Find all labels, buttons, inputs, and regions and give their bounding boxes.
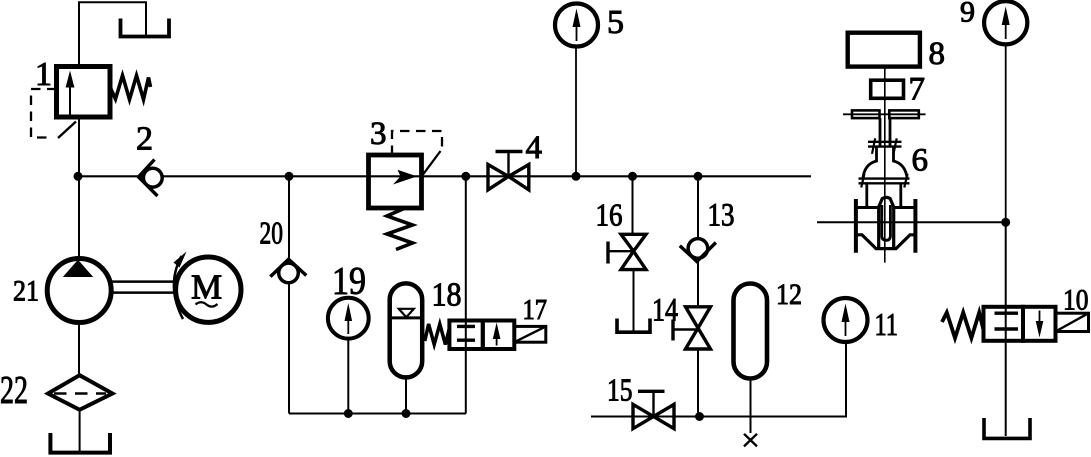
- pump 21: [47, 259, 111, 323]
- svg-text:12: 12: [776, 278, 802, 311]
- svg-text:6: 6: [912, 143, 929, 179]
- gauge 11: [845, 342, 847, 417]
- svg-text:M: M: [191, 268, 222, 307]
- wire to check 13: [697, 176, 699, 240]
- svg-text:7: 7: [909, 72, 926, 108]
- svg-text:4: 4: [526, 130, 543, 166]
- tank T21 (suction): [50, 433, 110, 453]
- pipe flanges: [854, 199, 858, 253]
- wire valve1 top to tank: [79, 2, 146, 66]
- svg-text:11: 11: [875, 306, 899, 342]
- stem: [879, 118, 882, 147]
- shutoff valve 15: [633, 404, 654, 428]
- check valve 2: [143, 168, 162, 187]
- wire check13 to valve 14: [697, 260, 699, 307]
- wire bottom-left manifold: [289, 413, 466, 415]
- spring of valve 3: [387, 209, 413, 250]
- svg-text:18: 18: [432, 277, 462, 314]
- node G (main/valve16): [628, 172, 637, 181]
- svg-text:21: 21: [13, 275, 39, 308]
- svg-text:13: 13: [708, 198, 735, 234]
- neck sides: [865, 183, 868, 207]
- tank T1 (relief outlet): [121, 19, 170, 37]
- gate valve 6 assembly: [843, 33, 945, 263]
- wire gauge 9 down: [1005, 44, 1007, 222]
- tank T16: [617, 319, 650, 333]
- svg-text:15: 15: [607, 372, 633, 408]
- node H (main/check13): [694, 172, 703, 181]
- solenoid valve 10: [942, 313, 984, 339]
- wire junction down through valve 10 to tank: [1005, 222, 1007, 436]
- pilot dashed line of valve 3: [392, 131, 442, 155]
- node D (gauge19/bottom line): [344, 409, 353, 418]
- inner stem tip: [882, 205, 891, 240]
- svg-text:3: 3: [370, 116, 387, 152]
- svg-text:5: 5: [607, 4, 624, 41]
- gauge 5: [575, 47, 577, 177]
- wire main manifold line: [78, 175, 811, 177]
- svg-text:22: 22: [0, 369, 28, 412]
- svg-text:14: 14: [652, 293, 678, 329]
- needle valve 14: [686, 307, 711, 328]
- svg-text:16: 16: [596, 197, 623, 233]
- node F (main/gauge5): [572, 172, 581, 181]
- accumulator 12: [734, 284, 768, 379]
- wire acc12 down to plug: [750, 379, 752, 434]
- wire pump to main line: [78, 176, 80, 259]
- handwheel: [843, 113, 926, 115]
- svg-text:20: 20: [260, 215, 284, 251]
- node C (main/branch17): [461, 172, 470, 181]
- tank T10: [984, 418, 1030, 438]
- svg-text:8: 8: [929, 36, 946, 72]
- wire to valve 16: [632, 176, 634, 234]
- pressure reducing valve 3: [369, 155, 422, 208]
- rotation arrow of motor: [174, 256, 183, 319]
- pilot dashed line of valve 1: [31, 89, 57, 138]
- spring of valve 1: [111, 76, 151, 100]
- wire pump to filter: [78, 323, 80, 377]
- stem centerline: [884, 67, 886, 263]
- svg-text:19: 19: [332, 260, 366, 303]
- svg-text:9: 9: [960, 0, 975, 29]
- filter 22: [48, 375, 112, 410]
- wire branch x=466 down through valve 17 to bottom line: [465, 176, 467, 413]
- wire bottom-right manifold: [591, 416, 847, 418]
- wire gate valve pipe line: [817, 221, 1006, 223]
- gauge 19: [347, 339, 349, 414]
- node A (junction valve1/pump/main): [74, 172, 83, 181]
- svg-text:17: 17: [523, 295, 548, 326]
- wire valve16 to tank: [633, 270, 635, 331]
- accumulator 18: [390, 283, 423, 377]
- gate wedge: [879, 197, 894, 248]
- wire valve14 to bottom line: [697, 349, 699, 417]
- upper packing flange: [868, 141, 902, 143]
- shaft pump-motor: [111, 280, 174, 283]
- wire valve1 to main line: [78, 117, 80, 176]
- solenoid valve 17: [425, 324, 450, 345]
- relief valve 1: [57, 67, 111, 118]
- svg-text:1: 1: [35, 56, 52, 93]
- body bottom funnel: [856, 235, 916, 249]
- check valve 20: [279, 263, 299, 283]
- electric motor M: [176, 257, 241, 322]
- needle valve 16: [621, 234, 646, 251]
- svg-text:2: 2: [136, 121, 153, 158]
- bonnet bell: [863, 147, 907, 179]
- svg-text:10: 10: [1063, 284, 1089, 317]
- node J (pipe/gauge9/valve10): [1001, 218, 1010, 227]
- coupling 7: [871, 80, 904, 98]
- check valve 13: [688, 239, 708, 259]
- actuator box 8: [848, 33, 920, 67]
- wire filter to tank: [79, 410, 81, 452]
- wire branch down to check 20: [288, 176, 290, 262]
- plugged port x: [744, 434, 757, 447]
- node E (acc18/bottom line): [402, 409, 411, 418]
- shutoff valve 4: [488, 165, 509, 190]
- wire check 20 down to bottom line: [288, 283, 290, 414]
- node I (valve14/bottom line): [695, 412, 704, 421]
- node B (main/branch20): [285, 172, 294, 181]
- body top: [856, 206, 879, 209]
- wire accumulator 18 down: [405, 377, 407, 413]
- gauge 9: [984, 1, 1027, 44]
- lower bonnet flange: [859, 177, 910, 179]
